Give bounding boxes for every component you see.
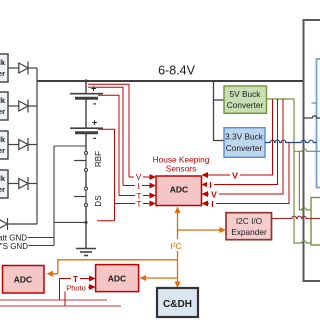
- svg-text:Converter: Converter: [227, 100, 264, 110]
- wire battery B2 to RBF switch: [85, 134, 87, 152]
- I2C I/O expander U4: [226, 213, 272, 240]
- ADC U6 (panel board): [96, 265, 139, 292]
- svg-text:I: I: [211, 199, 213, 209]
- svg-text:I2C I/O: I2C I/O: [236, 216, 263, 226]
- wire ADC right input I2 (red): [207, 143, 289, 204]
- svg-text:V: V: [136, 173, 142, 182]
- ADC U5 (battery board): [3, 266, 45, 294]
- ground: [76, 249, 96, 256]
- svg-text:V: V: [211, 190, 217, 200]
- wire PV2 to D2: [8, 105, 19, 107]
- C&DH box: [157, 288, 198, 317]
- wire 5V drop A (green): [294, 149, 320, 151]
- wire subsystem feed (black): [304, 116, 320, 118]
- svg-text:ADC: ADC: [170, 185, 188, 195]
- wire B2 voltage sense (red): [98, 129, 115, 220]
- svg-text:Converter: Converter: [226, 143, 263, 153]
- switch DS: [74, 187, 103, 207]
- svg-text:Power: Power: [0, 146, 5, 155]
- svg-text:+: +: [91, 84, 96, 94]
- wire PV4 to D4: [8, 183, 19, 185]
- svg-text:T: T: [137, 200, 142, 209]
- svg-text:-: -: [93, 99, 96, 110]
- wire 3.3V stub into loads box (blue): [312, 102, 317, 104]
- svg-text:RBF: RBF: [94, 151, 103, 167]
- 3.3V buck converter U2: [224, 128, 265, 158]
- node bus-battery junction: [84, 79, 87, 82]
- wire bus drop to converters: [214, 81, 225, 141]
- svg-text:I²C: I²C: [170, 241, 181, 251]
- wire I2C to expander (orange): [178, 229, 221, 231]
- wire ADC left input V (red): [129, 176, 150, 178]
- wire 5V drop B (green): [299, 151, 311, 210]
- blocking diode D4: [19, 177, 28, 190]
- svg-text:6-8.4V: 6-8.4V: [158, 64, 195, 78]
- svg-text:Bulk: Bulk: [0, 174, 6, 183]
- blocking diode D3: [19, 138, 28, 151]
- wire ADC left input I (red): [123, 185, 150, 187]
- svg-text:-: -: [93, 133, 96, 144]
- wire panel T sensor (red): [0, 299, 107, 301]
- wire battery sense tap lower: [54, 221, 86, 223]
- wire diode collector column: [36, 68, 38, 224]
- solar panel box PV1: [0, 54, 8, 82]
- 5V loads box (right, cut off): [311, 198, 320, 246]
- wire main power bus 6-8.4V: [37, 80, 304, 82]
- svg-text:V: V: [232, 171, 238, 181]
- wire D5 to bus column: [8, 223, 38, 225]
- wire ADC left input T2 (red): [115, 203, 151, 205]
- blocking diode D5 (cut off at left edge): [0, 218, 8, 230]
- svg-text:DS: DS: [94, 195, 103, 206]
- wire expander to subsystems (maroon) with hops: [272, 216, 320, 218]
- wire ADC left input T1 (red): [119, 195, 150, 197]
- solar panel box PV2: [0, 92, 8, 120]
- solar panel box PV3: [0, 131, 8, 159]
- svg-text:Bulk: Bulk: [0, 58, 6, 67]
- svg-text:Power: Power: [0, 69, 5, 78]
- wire DS to ground: [85, 207, 87, 249]
- wire battery B1 to B2: [85, 99, 87, 129]
- 5V buck converter U1: [224, 86, 267, 113]
- wire 5V output (green): [267, 99, 312, 243]
- svg-text:+: +: [92, 118, 97, 128]
- svg-text:ADC: ADC: [14, 275, 32, 285]
- blocking diode D2: [19, 100, 28, 113]
- solar panel box PV4: [0, 170, 8, 198]
- svg-text:Bulk: Bulk: [0, 135, 6, 144]
- wire B1 voltage sense (red): [98, 95, 119, 195]
- svg-text:Expander: Expander: [231, 227, 267, 237]
- wire battery bus V sense (red): [88, 84, 129, 177]
- wire I2C to ADC2 (orange): [145, 277, 178, 279]
- wire D1 to bus column: [28, 67, 37, 69]
- blocking diode D1: [19, 62, 28, 75]
- wire I2C to ADC1 (orange): [52, 260, 178, 274]
- house keeping sensors label: [153, 155, 210, 174]
- svg-text:Power: Power: [0, 107, 5, 116]
- wire RBF to DS: [85, 172, 87, 188]
- subsystems box (right, cut off): [304, 20, 320, 281]
- wire PV's GND: [29, 245, 55, 247]
- battery B2: [70, 118, 103, 145]
- wire panel photo sensor (red): [0, 305, 121, 307]
- ADC U3 house keeping: [156, 176, 202, 206]
- wire battery bus I sense (red): [88, 87, 123, 185]
- svg-text:3.3V Buck: 3.3V Buck: [225, 132, 264, 142]
- svg-text:PV'S GND: PV'S GND: [0, 242, 28, 251]
- node battery return junction: [84, 221, 87, 224]
- svg-text:Photo: Photo: [66, 284, 86, 293]
- svg-text:Bulk: Bulk: [0, 96, 6, 105]
- wire gnd label column: [53, 146, 55, 246]
- wire D3 to bus column: [28, 144, 37, 146]
- wire D4 to bus column: [28, 183, 37, 185]
- svg-text:C&DH: C&DH: [163, 299, 192, 310]
- switch RBF: [74, 151, 103, 172]
- wire PV3 to D3: [8, 144, 19, 146]
- wire ADC right input I1 (red): [207, 99, 278, 185]
- wire bus to battery stack: [85, 81, 87, 94]
- wire battery sense tap upper: [54, 145, 86, 147]
- wire D2 to bus column: [28, 105, 37, 107]
- svg-text:5V Buck: 5V Buck: [230, 89, 262, 99]
- wire PV1 to D1: [8, 67, 19, 69]
- wire 3.3V output (navy) with hops: [265, 140, 317, 142]
- svg-text:I: I: [137, 182, 139, 191]
- node I2C label: [168, 239, 185, 251]
- svg-text:I: I: [209, 180, 211, 190]
- wire ADC right input V1 (red): [207, 99, 273, 175]
- svg-text:Sensors: Sensors: [166, 164, 196, 174]
- 3.3V loads box (right, cut off): [317, 59, 320, 188]
- wire I2C bus vertical (orange): [177, 208, 179, 287]
- wire battery temp sense (red): [97, 220, 115, 222]
- wire branch to 5V buck: [214, 99, 225, 101]
- battery B1: [70, 84, 103, 110]
- wire Batt GND: [28, 237, 55, 239]
- wire ADC right input V2 (red): [207, 99, 283, 194]
- svg-text:ADC: ADC: [108, 274, 126, 284]
- svg-text:Power: Power: [0, 185, 5, 194]
